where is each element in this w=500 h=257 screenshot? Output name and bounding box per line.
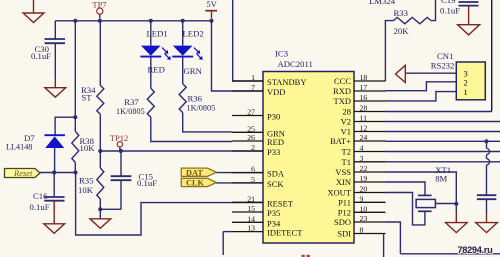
svg-text:15: 15 (247, 204, 255, 213)
svg-text:SDO: SDO (334, 217, 351, 227)
svg-text:XIN: XIN (336, 177, 351, 187)
svg-text:13: 13 (247, 224, 255, 233)
svg-text:TXD: TXD (334, 96, 351, 106)
svg-text:8: 8 (360, 226, 364, 235)
svg-text:Reset: Reset (13, 168, 33, 178)
svg-text:LED1: LED1 (147, 28, 168, 38)
svg-text:2: 2 (251, 143, 255, 152)
svg-text:VDD: VDD (267, 87, 285, 97)
svg-text:22: 22 (360, 164, 368, 173)
svg-text:T1: T1 (342, 157, 351, 167)
svg-text:5: 5 (251, 175, 255, 184)
svg-text:R36: R36 (188, 94, 203, 104)
svg-text:20K: 20K (394, 26, 410, 36)
svg-text:VSS: VSS (335, 167, 351, 177)
svg-text:1K/0805: 1K/0805 (116, 107, 145, 116)
svg-text:ST: ST (81, 93, 92, 103)
svg-text:STANDBY: STANDBY (267, 77, 306, 87)
svg-text:16: 16 (360, 93, 368, 102)
svg-text:SCK: SCK (267, 179, 284, 189)
svg-text:28: 28 (360, 104, 368, 113)
svg-text:DAT: DAT (186, 168, 203, 177)
svg-text:LM324: LM324 (369, 0, 396, 6)
svg-text:0.1uF: 0.1uF (440, 5, 460, 15)
svg-text:4: 4 (360, 144, 364, 153)
svg-text:P35: P35 (267, 208, 280, 218)
svg-text:14: 14 (247, 214, 255, 223)
svg-text:17: 17 (360, 83, 368, 92)
svg-text:10K: 10K (78, 185, 94, 195)
svg-text:TP7: TP7 (92, 0, 106, 9)
svg-text:10: 10 (360, 204, 368, 213)
svg-text:11: 11 (360, 114, 368, 123)
svg-text:2: 2 (464, 77, 468, 87)
svg-text:P11: P11 (338, 197, 351, 207)
svg-text:28: 28 (343, 107, 352, 117)
svg-text:IDETECT: IDETECT (267, 228, 303, 238)
svg-text:LL4148: LL4148 (6, 143, 32, 152)
svg-text:9: 9 (360, 194, 364, 203)
svg-text:V1: V1 (341, 127, 351, 137)
svg-text:78294.ru: 78294.ru (458, 245, 493, 255)
svg-text:3: 3 (360, 154, 364, 163)
svg-text:RS232: RS232 (431, 61, 455, 71)
svg-text:BAT+: BAT+ (330, 136, 351, 146)
svg-text:21: 21 (247, 194, 255, 203)
svg-text:RED: RED (267, 137, 284, 147)
svg-text:26: 26 (247, 133, 255, 142)
svg-text:1: 1 (251, 73, 255, 82)
svg-text:6: 6 (251, 165, 255, 174)
svg-text:CCC: CCC (334, 76, 351, 86)
svg-text:TP12: TP12 (110, 133, 128, 143)
svg-text:SDI: SDI (337, 229, 351, 239)
svg-text:7: 7 (251, 83, 255, 92)
svg-text:CN1: CN1 (437, 51, 453, 61)
svg-text:10K: 10K (80, 143, 96, 153)
svg-text:23: 23 (360, 214, 368, 223)
svg-text:19: 19 (360, 174, 368, 183)
svg-text:R37: R37 (124, 97, 139, 107)
svg-text:5V: 5V (207, 0, 217, 9)
svg-text:P12: P12 (338, 207, 351, 217)
svg-text:P33: P33 (267, 147, 280, 157)
svg-text:SDA: SDA (267, 169, 285, 179)
svg-text:T2: T2 (342, 147, 351, 157)
svg-text:8M: 8M (435, 173, 447, 183)
svg-text:R35: R35 (79, 176, 93, 186)
svg-text:D7: D7 (24, 133, 35, 143)
svg-text:C19: C19 (441, 0, 455, 5)
svg-text:P30: P30 (267, 112, 280, 122)
svg-text:C16: C16 (33, 191, 48, 201)
svg-text:1K/0805: 1K/0805 (187, 103, 216, 112)
svg-text:25: 25 (247, 124, 255, 133)
svg-text:0.1uF: 0.1uF (30, 202, 50, 212)
svg-text:GRN: GRN (184, 66, 203, 76)
svg-text:RED: RED (148, 64, 165, 74)
svg-text:R33: R33 (394, 8, 408, 18)
svg-text:1: 1 (464, 87, 468, 97)
svg-text:V2: V2 (341, 117, 351, 127)
svg-text:RESET: RESET (267, 198, 294, 208)
svg-text:LED2: LED2 (183, 28, 204, 38)
svg-text:0.1uF: 0.1uF (31, 51, 51, 61)
svg-text:XOUT: XOUT (327, 188, 351, 198)
svg-text:18: 18 (360, 73, 368, 82)
svg-text:ADC2011: ADC2011 (278, 59, 313, 69)
svg-text:27: 27 (247, 108, 255, 117)
svg-text:CLK: CLK (186, 179, 205, 188)
svg-text:0.1uF: 0.1uF (137, 178, 157, 188)
svg-text:RXD: RXD (333, 86, 351, 96)
svg-text:12: 12 (360, 124, 368, 133)
svg-text:IC3: IC3 (275, 49, 288, 59)
svg-text:20: 20 (360, 185, 368, 194)
svg-text:24: 24 (360, 133, 368, 142)
